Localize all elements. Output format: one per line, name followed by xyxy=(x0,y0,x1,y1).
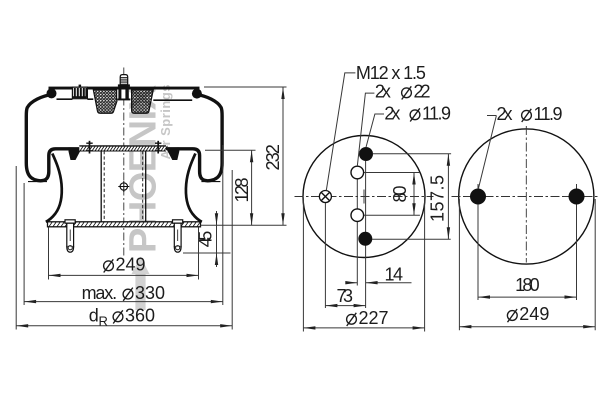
dimension dia249 left view xyxy=(49,228,199,280)
dimension 80 xyxy=(364,173,420,216)
svg-text:360: 360 xyxy=(125,306,155,326)
label 2x dia11.9 right view xyxy=(497,104,563,124)
center cross middle view xyxy=(363,190,365,204)
piston side profile left xyxy=(46,154,62,222)
svg-text:227: 227 xyxy=(359,308,389,328)
bellows clamp wedge right xyxy=(167,147,179,160)
bellows outline right xyxy=(168,95,223,181)
extension line from air inlet down xyxy=(324,203,326,308)
top plate circle xyxy=(303,136,425,258)
svg-text:11.9: 11.9 xyxy=(534,104,563,124)
centermark ticks right stud xyxy=(564,184,589,209)
stud dia11.9 right (filled) xyxy=(569,189,585,205)
label 2x dia11.9 middle xyxy=(384,104,451,124)
piston center mark xyxy=(118,181,129,192)
stud dia11.9 left (filled) xyxy=(470,189,486,205)
centerline left view xyxy=(123,68,125,257)
lobe bottom edge left xyxy=(28,181,47,183)
dimension dR dia360 xyxy=(16,166,232,330)
dimension 180 xyxy=(478,275,577,299)
svg-text:232: 232 xyxy=(263,144,283,171)
bellows clamp wedge left xyxy=(69,147,81,160)
bellows outline left xyxy=(26,95,80,181)
piston neck visible edges xyxy=(101,151,146,222)
centermark ticks left stud xyxy=(466,184,491,209)
svg-text:249: 249 xyxy=(519,304,549,324)
svg-text:max.: max. xyxy=(82,283,118,303)
dimension dia249 right view xyxy=(459,199,595,330)
svg-text:2x: 2x xyxy=(375,82,391,102)
bottom stud right xyxy=(173,220,183,252)
hole dia22 upper xyxy=(351,166,364,179)
svg-text:22: 22 xyxy=(414,82,431,102)
hole dia22 lower xyxy=(351,209,364,222)
dimension 157.5 xyxy=(372,154,451,239)
leader 2x dia11.9 middle xyxy=(366,114,384,147)
extension line left stud xyxy=(477,205,479,300)
dimension 45 xyxy=(183,211,231,267)
svg-text:73: 73 xyxy=(337,286,354,306)
leader 2x dia22 xyxy=(357,93,374,166)
top plate xyxy=(49,87,200,101)
svg-text:d: d xyxy=(89,306,99,326)
piston clamp bolt right xyxy=(155,141,161,154)
stud dia11.9 lower (filled) xyxy=(358,232,372,246)
svg-text:180: 180 xyxy=(515,275,540,295)
svg-text:M12 x 1.5: M12 x 1.5 xyxy=(356,63,426,83)
svg-text:14: 14 xyxy=(385,265,404,285)
stud boss through bumper xyxy=(117,90,130,101)
air inlet M12 symbol (circle with X) xyxy=(319,191,331,203)
svg-text:330: 330 xyxy=(135,283,165,303)
svg-text:157.5: 157.5 xyxy=(427,175,447,222)
lobe bottom edge right xyxy=(201,181,220,183)
air fitting xyxy=(72,85,87,99)
dimension 232 xyxy=(201,87,287,225)
leader 2x dia11.9 right view xyxy=(478,116,496,190)
piston clamp bolt left xyxy=(86,141,92,154)
rubber bumper left half (crosshatched) xyxy=(93,90,117,114)
dimension max dia330 xyxy=(24,145,223,305)
svg-text:2x: 2x xyxy=(497,104,513,124)
watermark Air Springs text xyxy=(158,85,173,160)
bottom stud left xyxy=(65,220,75,252)
svg-text:R: R xyxy=(99,314,108,329)
dimension 128 xyxy=(205,150,256,225)
dimension dia227 xyxy=(303,198,424,332)
piston top plate (hatched band) xyxy=(79,146,167,151)
piston neck hidden edges (dashed) xyxy=(104,151,143,222)
vertical centerline right view xyxy=(525,126,527,263)
dimension 73 xyxy=(325,286,365,307)
extension line from dia11.9 studs down xyxy=(365,161,367,308)
bottom plate xyxy=(48,222,201,227)
label M12 x 1.5 xyxy=(356,63,426,83)
stud dia11.9 upper (filled) xyxy=(359,147,373,161)
piston side profile right xyxy=(186,154,202,222)
extension line right stud xyxy=(576,184,578,300)
watermark PHOENIX logo text xyxy=(123,84,165,253)
top plate right rolled bead xyxy=(192,89,202,99)
svg-text:80: 80 xyxy=(390,186,410,203)
top plate left rolled bead xyxy=(47,88,57,98)
top stud M12 xyxy=(118,75,130,87)
svg-text:2x: 2x xyxy=(384,104,400,124)
svg-text:128: 128 xyxy=(232,178,252,203)
rubber bumper right half (crosshatched) xyxy=(132,90,154,114)
svg-text:249: 249 xyxy=(116,255,146,275)
svg-text:11.9: 11.9 xyxy=(422,104,451,124)
horizontal centerline middle view xyxy=(295,196,434,198)
piston bottom circle xyxy=(459,129,594,264)
watermark arrow xyxy=(132,257,150,311)
dimension 14 xyxy=(345,265,411,285)
extension line from dia22 holes down xyxy=(356,179,358,286)
leader M12 x 1.5 xyxy=(326,73,355,191)
horizontal centerline right view xyxy=(452,196,600,198)
label 2x dia22 xyxy=(375,82,431,102)
